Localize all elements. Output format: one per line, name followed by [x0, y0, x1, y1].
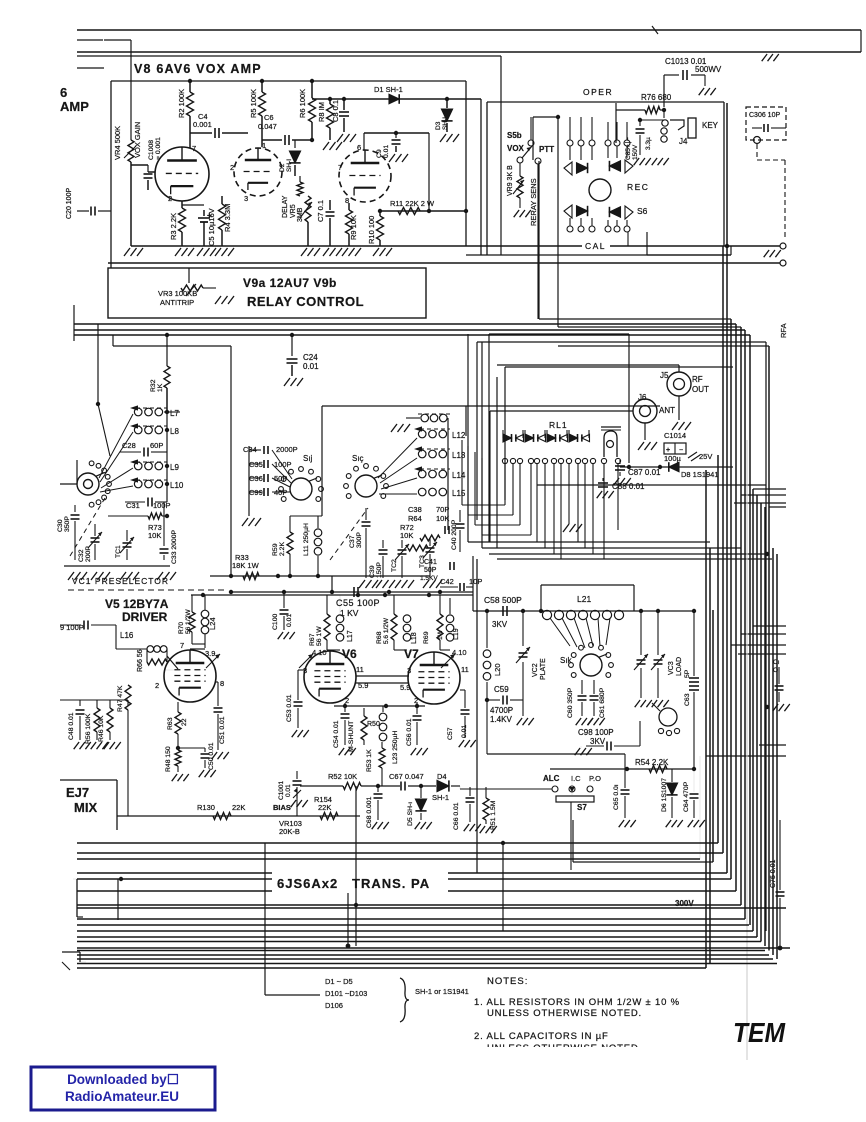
bus bottom y843	[77, 842, 718, 844]
relay pin 13	[601, 458, 606, 463]
svg-text:D4: D4	[437, 772, 447, 781]
nest right y654	[738, 653, 786, 655]
svg-text:OUT: OUT	[692, 385, 709, 394]
brace	[400, 978, 409, 1022]
ground R10	[373, 248, 379, 256]
wire cathode bus	[334, 705, 425, 707]
nest right y634	[741, 633, 786, 635]
wire V6-V7 b	[356, 682, 409, 684]
resistor R70 56 1/2W	[191, 595, 193, 612]
resistor R52 10K	[300, 785, 343, 787]
wire x113 up	[112, 335, 114, 346]
capacitor C67 0.047	[400, 782, 402, 791]
svg-text:C1014: C1014	[664, 431, 686, 440]
svg-text:RL1: RL1	[549, 420, 568, 430]
svg-text:P.O: P.O	[589, 774, 601, 783]
wire x356 down	[355, 786, 357, 946]
switch S1j	[290, 478, 312, 500]
svg-text:1. ALL RESISTORS IN OHM 1/: 1. ALL RESISTORS IN OHM 1/2W ± 10 %	[474, 997, 680, 1008]
term circle 2	[780, 260, 786, 266]
svg-text:C68 0.001: C68 0.001	[366, 796, 373, 828]
resistor R63 22	[177, 702, 179, 712]
svg-text:KEY: KEY	[702, 121, 719, 130]
switch pin top 1	[567, 140, 573, 146]
capacitor C98 100P 3KV	[586, 745, 604, 747]
bus bottom y905	[77, 904, 741, 906]
dash underline	[68, 589, 228, 591]
svg-text:1.4KV: 1.4KV	[490, 715, 512, 724]
resistor R3 2.2K	[181, 201, 183, 208]
bus y324	[74, 323, 736, 325]
bus bundle y963.5	[77, 963, 777, 965]
svg-text:R70: R70	[178, 622, 185, 634]
tube V5	[164, 650, 216, 702]
wire x481 down	[480, 99, 482, 255]
svg-text:R76 680: R76 680	[641, 93, 672, 102]
resistor R2 100K	[187, 92, 194, 116]
resistor R46 10K	[107, 708, 113, 732]
contact tri 4	[609, 207, 620, 217]
svg-text:R67: R67	[309, 633, 316, 646]
wire relay drop 7	[553, 464, 555, 554]
wire oper feed	[533, 116, 558, 118]
svg-text:100P: 100P	[153, 501, 171, 510]
ground D3	[440, 134, 446, 142]
svg-text:6: 6	[60, 85, 67, 100]
svg-text:25V: 25V	[699, 452, 712, 461]
wire x625 drop	[624, 754, 626, 769]
wire relay left corner 2	[468, 514, 513, 516]
svg-text:SH-I: SH-I	[442, 117, 449, 130]
capacitor C49 100P	[60, 624, 81, 626]
resistor R51 1.5M	[485, 787, 487, 798]
contact tri 1	[577, 163, 588, 173]
svg-text:C100: C100	[272, 614, 279, 630]
fan y542	[468, 541, 710, 543]
wire V6-V7 a	[356, 675, 409, 677]
wire relay drop 4	[530, 464, 532, 535]
svg-text:CAL: CAL	[585, 241, 606, 251]
ground C85	[634, 158, 639, 165]
ground rail1	[68, 572, 74, 580]
bus y931	[77, 930, 753, 932]
svg-text:2: 2	[230, 163, 234, 172]
svg-text:R63: R63	[167, 717, 174, 730]
ground TC2	[395, 580, 401, 588]
switch pin bot 1	[567, 226, 573, 232]
switch pin top 2	[578, 140, 584, 146]
capacitor C66 0.01	[469, 787, 471, 796]
bus vertical x706	[705, 470, 707, 968]
box downloaded	[31, 1067, 215, 1110]
diode D2 SH-1	[294, 140, 296, 148]
box switch top	[487, 101, 724, 103]
wire ALC left	[460, 788, 552, 790]
svg-text:C99: C99	[249, 488, 263, 497]
capacitor C48 0.01	[76, 709, 85, 711]
box C306 dashed	[746, 107, 786, 140]
key symbol	[670, 120, 684, 130]
ground C57	[459, 740, 464, 747]
svg-text:C61 680P: C61 680P	[599, 687, 606, 718]
wire col top	[80, 699, 128, 701]
wire VR3 feed	[188, 268, 190, 283]
label 6JS6Ax2 TRANS PA	[272, 872, 448, 893]
svg-text:C51 0.01: C51 0.01	[219, 716, 226, 744]
coil L24	[204, 595, 206, 610]
svg-text:C6: C6	[264, 113, 274, 122]
svg-text:R46 10K: R46 10K	[98, 715, 105, 742]
svg-text:R47 47K: R47 47K	[117, 685, 124, 712]
wire relay drop 14	[617, 464, 619, 530]
ground C48	[74, 742, 79, 749]
svg-text:ANTITRIP: ANTITRIP	[160, 298, 194, 307]
svg-text:0.001: 0.001	[193, 120, 212, 129]
bus vertical x745	[744, 330, 746, 919]
ground C51	[212, 752, 217, 759]
wire rec right	[646, 232, 648, 255]
rail y595	[191, 594, 473, 596]
wire relay drop 13	[603, 464, 605, 559]
capacitor C42 10P	[440, 586, 458, 588]
bus vertical x718	[717, 455, 719, 843]
svg-text:R54 2.2K: R54 2.2K	[635, 758, 669, 767]
switch pin top2 3	[624, 140, 630, 146]
svg-text:R9 10K: R9 10K	[349, 215, 358, 240]
wire relay left corner 1	[462, 504, 505, 506]
svg-text:J6: J6	[638, 393, 647, 402]
svg-text:V5 12BY7A: V5 12BY7A	[105, 597, 169, 611]
wire grid V5	[164, 669, 176, 671]
svg-text:8: 8	[220, 679, 224, 688]
svg-text:L18: L18	[411, 632, 418, 644]
resistor R69 1W	[439, 595, 441, 614]
capacitor C50 0.01	[178, 747, 205, 749]
svg-text:C20 100P: C20 100P	[66, 188, 73, 219]
ground C50	[199, 770, 204, 777]
relay pin 2	[510, 458, 515, 463]
variable capacitor VC3a	[637, 659, 646, 661]
svg-text:C53 0.01: C53 0.01	[286, 694, 293, 722]
svg-text:R66 56: R66 56	[137, 649, 144, 672]
svg-text:2. ALL CAPACITORS IN µF: 2. ALL CAPACITORS IN µF	[474, 1031, 609, 1042]
bus vertical x753	[752, 489, 754, 931]
svg-text:R51 1.5M: R51 1.5M	[490, 800, 497, 830]
bus bundle y950.5	[77, 950, 765, 952]
svg-text:R48 150: R48 150	[165, 746, 172, 772]
svg-text:C98 100P: C98 100P	[578, 728, 614, 737]
ground x249	[242, 518, 248, 526]
resistor R64 10K	[420, 535, 440, 541]
diode D6 1S1007	[671, 769, 673, 782]
nest vert x477	[476, 342, 478, 520]
variable capacitor VC3b	[654, 659, 663, 661]
svg-text:2: 2	[155, 681, 159, 690]
capacitor C88 0.01	[602, 478, 604, 481]
wire switch fans	[99, 414, 133, 478]
wire J5 gnd	[678, 396, 680, 420]
diode D1 SH-1	[389, 94, 399, 104]
capacitor C24 0.01	[291, 335, 293, 356]
note2b	[487, 1043, 639, 1054]
bus vertical x736	[735, 324, 737, 891]
svg-text:C64 470P: C64 470P	[683, 781, 690, 812]
wire y346	[113, 345, 231, 347]
wire mid vertical x477	[476, 559, 478, 873]
svg-text:AMP: AMP	[60, 99, 89, 114]
wire fan S1j	[272, 450, 292, 479]
svg-text:Downloaded by☐: Downloaded by☐	[67, 1072, 179, 1087]
svg-text:C32: C32	[78, 549, 85, 562]
ground C37	[359, 580, 365, 588]
wire slash mark	[652, 26, 658, 34]
svg-text:UNLESS OTHERWISE NOTED.: UNLESS OTHERWISE NOTED.	[487, 1008, 642, 1019]
bus y862	[573, 861, 713, 863]
svg-text:VR9 3K B: VR9 3K B	[507, 165, 514, 196]
ground rail3	[120, 572, 126, 580]
resistor R130 22K	[213, 813, 231, 820]
capacitor C53 0.01	[297, 670, 299, 700]
resistor R8 1M	[329, 99, 331, 104]
ground rail2	[91, 572, 97, 580]
resistor R56 100K	[94, 708, 100, 732]
svg-text:C33 2000P: C33 2000P	[171, 530, 178, 564]
capacitor C35 100P	[263, 460, 265, 468]
contact IC	[569, 786, 575, 792]
svg-text:L8: L8	[170, 427, 179, 436]
svg-text:PTT: PTT	[539, 145, 554, 154]
svg-text:10K: 10K	[400, 531, 413, 540]
svg-text:C55 100P: C55 100P	[336, 598, 380, 608]
wire y700 stub	[60, 699, 80, 701]
svg-text:100P: 100P	[274, 460, 292, 469]
capacitor C54 0.01	[344, 703, 346, 712]
switch pin top2 1	[605, 140, 611, 146]
svg-text:C88 0.01: C88 0.01	[612, 482, 645, 491]
wire relay drop 10	[577, 464, 579, 542]
potentiometer VR3 100KB	[181, 285, 203, 291]
svg-text:0.01: 0.01	[286, 614, 293, 627]
resistor R33 18K 1W	[243, 573, 259, 580]
switch pin top2 2	[614, 140, 620, 146]
resistor R32 1K	[166, 335, 168, 366]
coil L11 250uH	[317, 516, 319, 528]
wire left x74	[73, 305, 75, 341]
svg-text:D2: D2	[279, 163, 286, 172]
svg-text:SH-1: SH-1	[432, 793, 449, 802]
svg-text:C56 0.01: C56 0.01	[406, 718, 413, 746]
relay pin 6	[542, 458, 547, 463]
wire plate out y133	[364, 132, 429, 134]
vert x503	[502, 843, 504, 931]
capacitor C5 10u16V	[203, 210, 205, 216]
svg-text:Sıj: Sıj	[303, 454, 313, 463]
svg-text:ANT: ANT	[659, 406, 675, 415]
svg-text:C75 0.01: C75 0.01	[770, 859, 777, 888]
svg-text:NOTES:: NOTES:	[487, 976, 528, 987]
svg-text:C40 200P: C40 200P	[451, 519, 458, 550]
node R5 top	[260, 79, 264, 83]
svg-text:0.047: 0.047	[258, 122, 277, 131]
svg-text:3.3µ: 3.3µ	[645, 137, 652, 150]
wire relay drop 6	[544, 464, 546, 548]
svg-text:0.01: 0.01	[285, 784, 292, 797]
bus y330	[74, 329, 745, 331]
svg-text:11: 11	[461, 665, 469, 674]
jack J6 ANT	[633, 399, 657, 423]
switch drive	[659, 708, 677, 726]
svg-text:R11 22K 2 W: R11 22K 2 W	[390, 199, 435, 208]
svg-text:MIX: MIX	[74, 800, 97, 815]
nest right y626	[753, 625, 786, 627]
ground C56	[411, 748, 416, 755]
bus bundle y959	[77, 958, 773, 960]
svg-text:VC2: VC2	[532, 663, 539, 677]
jack J4 KEY	[662, 120, 668, 126]
capacitor C64 470P	[693, 769, 695, 792]
coil L9	[134, 462, 142, 470]
arrow V7	[441, 654, 455, 668]
svg-text:RadioAmateur.EU: RadioAmateur.EU	[65, 1089, 179, 1104]
resistor R68 5.6 1/2W	[393, 595, 395, 614]
svg-text:4700P: 4700P	[490, 706, 513, 715]
wire y246 long	[131, 245, 780, 247]
switch S7	[556, 796, 594, 802]
wire C88 row	[537, 484, 766, 486]
svg-text:REC: REC	[627, 182, 649, 192]
capacitor C34 2000P	[263, 446, 265, 454]
capacitor C39 150P	[382, 540, 384, 548]
svg-text:R3 2.2K: R3 2.2K	[169, 213, 178, 240]
svg-text:C87 0.01: C87 0.01	[628, 468, 661, 477]
relay pin 11	[582, 458, 587, 463]
svg-text:R4 3.3M: R4 3.3M	[223, 204, 232, 232]
svg-text:56 1W: 56 1W	[316, 626, 323, 646]
svg-text:L7: L7	[170, 409, 179, 418]
svg-text:−: −	[679, 447, 683, 454]
svg-text:10P: 10P	[469, 577, 482, 586]
potentiometer VR4	[128, 140, 134, 162]
svg-text:TEM: TEM	[733, 1017, 786, 1048]
switch pin bot2 2	[614, 226, 620, 232]
switch pin bot2 3	[624, 226, 630, 232]
wire fan S1c	[378, 438, 417, 478]
svg-text:300P: 300P	[356, 532, 363, 548]
ground C7	[323, 248, 329, 256]
wire y255	[466, 254, 731, 256]
tank bottom rail	[487, 753, 625, 755]
label CAL	[582, 240, 610, 252]
svg-text:D5 SH-ı: D5 SH-ı	[407, 802, 414, 826]
capacitor C60 350P	[581, 680, 583, 694]
coil L23 250uH	[379, 713, 387, 721]
svg-text:R69: R69	[423, 631, 430, 644]
bus bottom y853	[77, 852, 723, 854]
svg-text:VR3 100KB: VR3 100KB	[158, 289, 197, 298]
svg-text:C39: C39	[369, 565, 376, 578]
relay pin 4	[528, 458, 533, 463]
ground VR9	[514, 210, 519, 217]
tap wires L21	[550, 618, 570, 646]
svg-text:RELAY CONTROL: RELAY CONTROL	[247, 294, 364, 309]
bus bundle y937	[77, 936, 757, 938]
ground VR4	[130, 162, 132, 246]
resistor R11 22K 2W	[398, 208, 420, 215]
nest right y756	[706, 755, 786, 757]
capacitor C40 200P	[459, 510, 461, 522]
nest vert x497	[496, 377, 498, 548]
switch pin bot 2	[578, 226, 584, 232]
tube V7	[408, 652, 460, 704]
svg-text:R68: R68	[376, 631, 383, 644]
bus vertical x757	[756, 495, 758, 937]
node y946b	[778, 946, 783, 951]
relay pin 8	[558, 458, 563, 463]
wire bias row y816	[117, 815, 360, 817]
svg-text:V7: V7	[404, 647, 419, 661]
svg-text:VC1 PRESELECTOR: VC1 PRESELECTOR	[72, 576, 169, 586]
svg-text:TRANS. PA: TRANS. PA	[352, 876, 430, 891]
ground R8	[323, 142, 329, 150]
nest line y342	[477, 341, 766, 343]
variable capacitor VC2	[522, 611, 524, 646]
resistor R154 22K	[320, 813, 338, 820]
svg-text:R32: R32	[150, 379, 157, 392]
svg-text:L14: L14	[452, 471, 466, 480]
svg-text:0.01: 0.01	[303, 362, 319, 371]
svg-text:DRIVER: DRIVER	[122, 610, 168, 624]
ground C1013	[704, 75, 706, 86]
wire vertical x131	[130, 40, 132, 140]
wire D8 row y467	[620, 466, 733, 468]
fan y554	[489, 553, 767, 555]
term circle 1	[780, 243, 786, 249]
svg-text:C58 500P: C58 500P	[484, 595, 522, 605]
svg-text:OPER: OPER	[583, 87, 613, 97]
relay pin 12	[590, 458, 595, 463]
svg-text:L10: L10	[170, 481, 184, 490]
relay pin 14	[615, 458, 620, 463]
contact ALC	[552, 786, 558, 792]
svg-text:L15: L15	[452, 489, 466, 498]
svg-text:R2 100K: R2 100K	[177, 89, 186, 118]
box relay control	[108, 268, 426, 318]
svg-text:3KV: 3KV	[590, 737, 606, 746]
potentiometer VR9 3KB	[519, 163, 521, 176]
nest right y489	[753, 488, 786, 490]
svg-text:C34: C34	[243, 445, 257, 454]
bus bundle y968	[77, 967, 706, 969]
ground C98	[575, 748, 580, 755]
svg-text:0.01: 0.01	[383, 145, 390, 158]
fold line	[746, 440, 748, 1060]
capacitor C20 100P	[77, 210, 89, 212]
capacitor C58 500P	[502, 606, 504, 616]
nest vert x505	[504, 367, 506, 500]
svg-text:RERAY SENS: RERAY SENS	[529, 178, 538, 226]
node R32	[165, 333, 169, 337]
svg-text:C35: C35	[249, 460, 263, 469]
relay contact 3	[547, 434, 556, 442]
svg-text:6JS6Ax2: 6JS6Ax2	[277, 876, 338, 891]
bus vertical x727	[726, 103, 728, 873]
jack J5 RF OUT	[667, 372, 691, 396]
coil L18	[403, 615, 411, 623]
svg-text:S7: S7	[577, 803, 587, 812]
wire relay left corner 3	[475, 524, 520, 526]
ground top right	[762, 54, 767, 61]
svg-text:TC2: TC2	[391, 559, 398, 572]
